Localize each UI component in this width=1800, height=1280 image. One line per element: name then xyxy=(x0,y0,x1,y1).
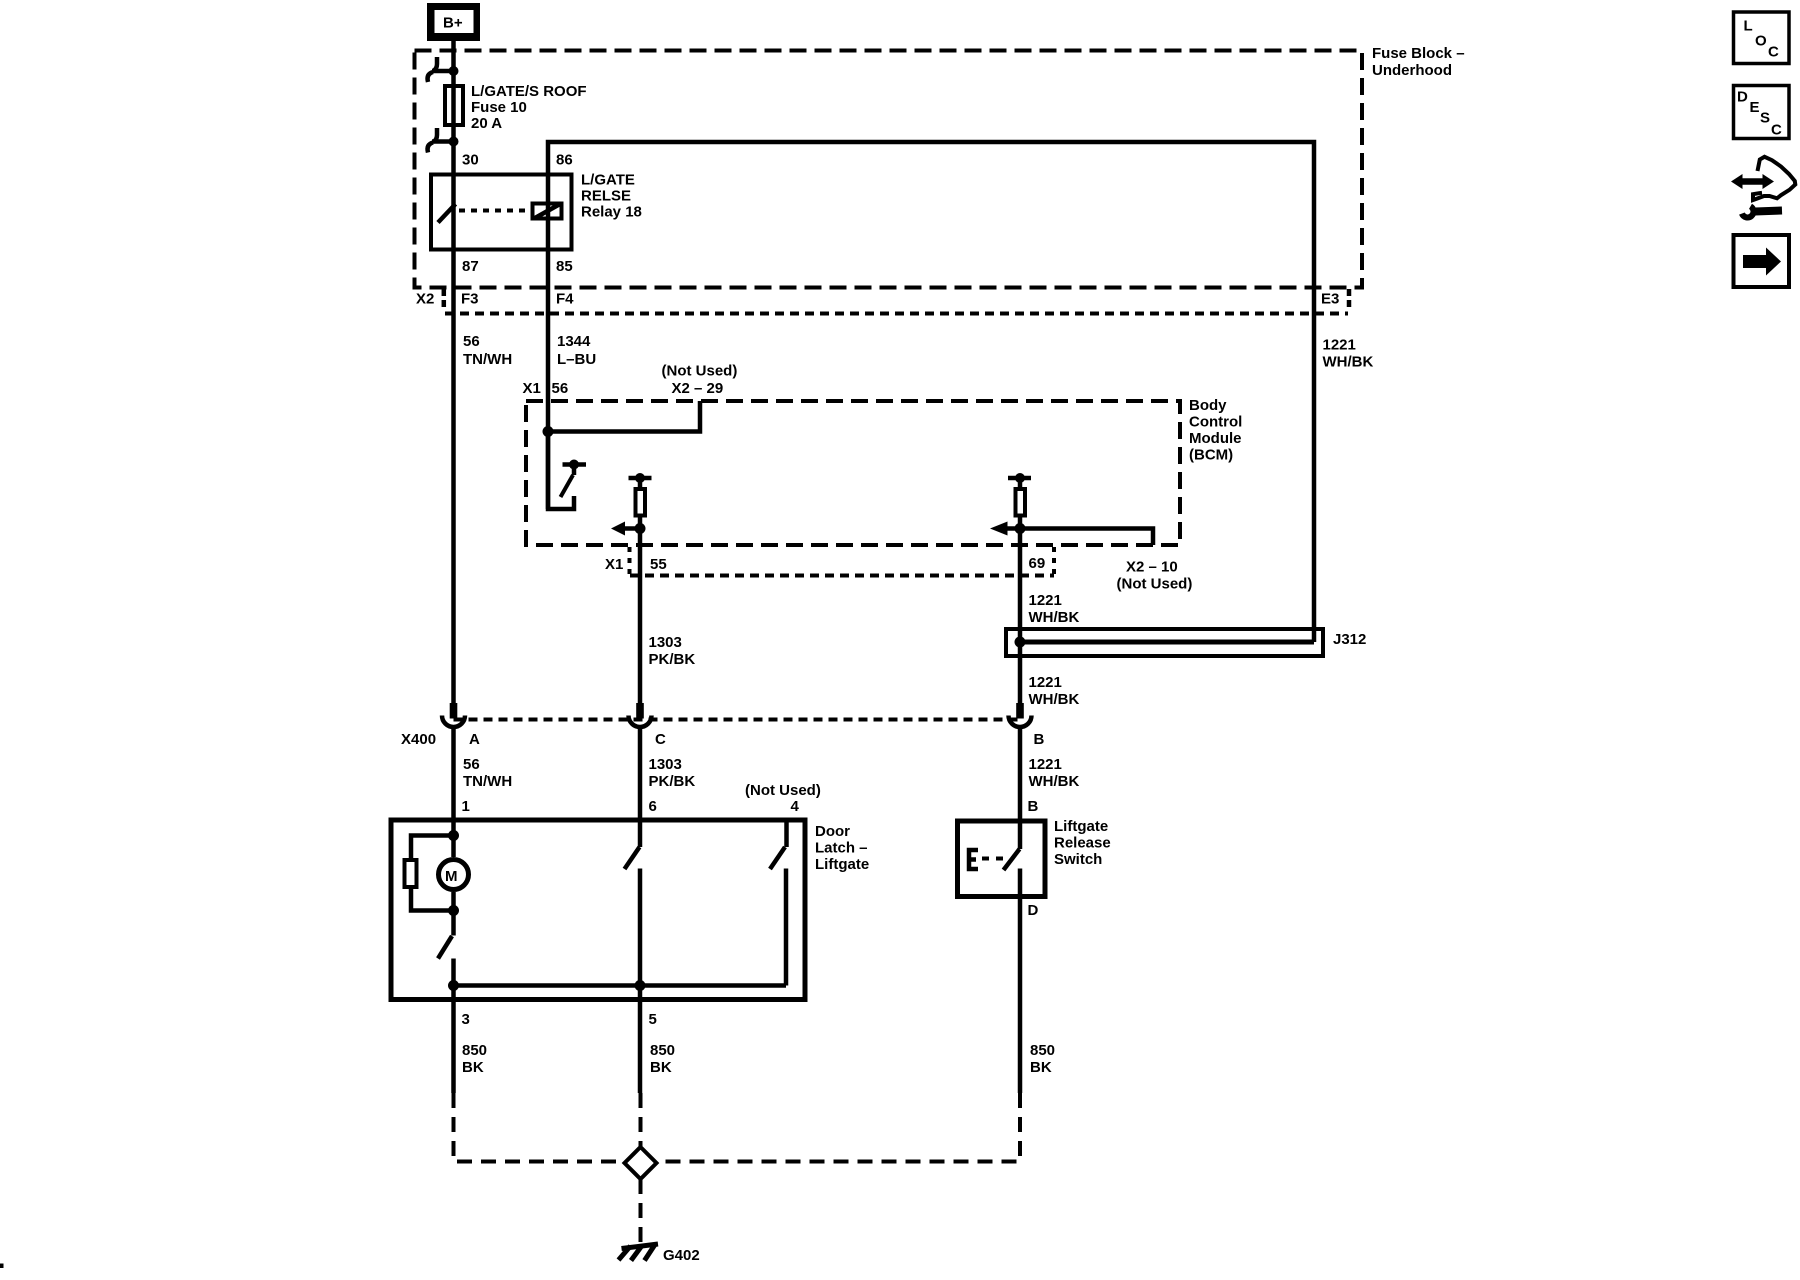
relay switch blade (30 to 87) xyxy=(438,204,456,223)
motor M xyxy=(439,836,469,890)
pin labels 1 6 4 B xyxy=(462,798,1039,815)
fuse block underhood dashed box xyxy=(415,51,1363,288)
svg-text:56: 56 xyxy=(463,756,480,773)
svg-text:X400: X400 xyxy=(401,731,436,748)
svg-text:(Not Used): (Not Used) xyxy=(662,363,738,380)
relay L/GATE RELSE Relay 18 box xyxy=(431,175,572,250)
svg-text:WH/BK: WH/BK xyxy=(1029,691,1080,708)
svg-text:WH/BK: WH/BK xyxy=(1029,609,1080,626)
svg-text:6: 6 xyxy=(649,798,657,815)
BCM dashed box xyxy=(526,401,1180,545)
wire B+ to relay pin 30 xyxy=(451,41,456,250)
label Door Latch - Liftgate xyxy=(815,823,869,873)
svg-text:X2 – 10: X2 – 10 xyxy=(1126,559,1178,576)
label 1303 PK/BK (mid) xyxy=(649,634,696,668)
connector label X1 55 xyxy=(605,547,667,575)
svg-text:TN/WH: TN/WH xyxy=(463,773,512,790)
svg-text:1221: 1221 xyxy=(1029,674,1062,691)
svg-text:Control: Control xyxy=(1189,414,1242,431)
svg-text:Liftgate: Liftgate xyxy=(1054,818,1108,835)
wire 87 down to X400-A xyxy=(451,250,456,703)
labels 850 BK x3 xyxy=(462,1042,487,1076)
page artifact dot bottom left xyxy=(0,1264,4,1269)
svg-text:(Not Used): (Not Used) xyxy=(1117,576,1193,593)
svg-text:E3: E3 xyxy=(1321,291,1339,308)
svg-text:BK: BK xyxy=(650,1059,672,1076)
svg-text:J312: J312 xyxy=(1333,631,1366,648)
svg-text:(Not Used): (Not Used) xyxy=(745,782,821,799)
svg-text:850: 850 xyxy=(650,1042,675,1059)
BCM output arrow right and X2-10 stub xyxy=(990,522,1153,546)
svg-text:20 A: 20 A xyxy=(471,115,502,132)
svg-text:56: 56 xyxy=(552,380,569,397)
svg-text:F3: F3 xyxy=(461,291,479,308)
svg-text:E: E xyxy=(1750,99,1760,116)
svg-text:G402: G402 xyxy=(663,1247,700,1264)
label 1221 WH/BK (below J312) xyxy=(1029,674,1080,708)
splice diamond xyxy=(625,1147,657,1179)
wire pin 5 down xyxy=(638,986,643,1094)
svg-text:S: S xyxy=(1760,110,1770,127)
fuse L/GATE/S ROOF Fuse 10 20A xyxy=(445,83,587,132)
label 56 TN/WH upper xyxy=(463,333,512,368)
svg-text:87: 87 xyxy=(462,258,479,275)
svg-text:WH/BK: WH/BK xyxy=(1029,773,1080,790)
svg-text:1344: 1344 xyxy=(557,333,591,350)
fuse clip top xyxy=(428,57,459,82)
svg-text:L/GATE/S ROOF: L/GATE/S ROOF xyxy=(471,83,587,100)
svg-text:Release: Release xyxy=(1054,835,1111,852)
svg-text:1221: 1221 xyxy=(1029,592,1062,609)
svg-text:A: A xyxy=(469,731,480,748)
svg-text:Fuse 10: Fuse 10 xyxy=(471,99,527,116)
svg-text:Switch: Switch xyxy=(1054,851,1102,868)
svg-text:30: 30 xyxy=(462,152,479,169)
wire relay pin 86 up and right to E3 xyxy=(548,142,1314,642)
node motor top xyxy=(448,830,459,841)
svg-text:L–BU: L–BU xyxy=(557,351,596,368)
svg-text:3: 3 xyxy=(462,1011,470,1028)
svg-text:Underhood: Underhood xyxy=(1372,62,1452,79)
relay coil xyxy=(533,204,562,219)
label 1344 L-BU xyxy=(557,333,596,368)
latch switch 1 (motor leg) xyxy=(438,892,454,986)
svg-text:1221: 1221 xyxy=(1323,337,1356,354)
svg-text:Relay 18: Relay 18 xyxy=(581,204,642,221)
svg-text:B: B xyxy=(1028,798,1039,815)
internal ground bus of door latch xyxy=(448,980,786,991)
svg-text:Liftgate: Liftgate xyxy=(815,856,869,873)
svg-text:B: B xyxy=(1034,731,1045,748)
node motor bottom xyxy=(448,905,459,916)
dashed wire diamond to ground xyxy=(639,1179,643,1246)
label Body Control Module (BCM) xyxy=(1189,397,1242,464)
svg-text:RELSE: RELSE xyxy=(581,188,631,205)
svg-text:M: M xyxy=(445,868,458,885)
svg-text:Fuse Block –: Fuse Block – xyxy=(1372,45,1465,62)
svg-text:(BCM): (BCM) xyxy=(1189,447,1233,464)
icon diagnostic arrows and wrench xyxy=(1731,157,1795,218)
label (Not Used) X2-29 xyxy=(662,363,738,398)
resistor branch in door latch xyxy=(405,836,454,911)
svg-text:69: 69 xyxy=(1029,555,1046,572)
svg-text:D: D xyxy=(1737,89,1748,106)
pin labels 3 5 xyxy=(462,1011,657,1028)
connector label 69 xyxy=(1029,547,1055,576)
svg-text:850: 850 xyxy=(462,1042,487,1059)
latch switch 2 (pin 6 leg) xyxy=(625,819,641,986)
label Liftgate Release Switch xyxy=(1054,818,1111,868)
label 1221 WH/BK (switch) xyxy=(1029,756,1080,790)
svg-text:BK: BK xyxy=(1030,1059,1052,1076)
wire X400-C to door latch pin 6 xyxy=(638,729,643,819)
svg-text:F4: F4 xyxy=(556,291,574,308)
manual actuator E symbol xyxy=(969,850,1005,869)
BCM resistor right xyxy=(1008,473,1031,529)
svg-text:5: 5 xyxy=(649,1011,657,1028)
svg-text:PK/BK: PK/BK xyxy=(649,773,696,790)
connector label X1 56 xyxy=(523,380,569,397)
svg-text:4: 4 xyxy=(791,798,800,815)
wire X1-55 down to X400-C xyxy=(638,529,643,704)
wire pin 3 down xyxy=(451,986,456,1094)
svg-text:C: C xyxy=(1768,44,1779,61)
wire relay coil 86-85 vertical xyxy=(546,173,551,251)
icon DESC box xyxy=(1734,86,1790,139)
svg-text:L/GATE: L/GATE xyxy=(581,172,635,189)
svg-text:D: D xyxy=(1028,902,1039,919)
label 1221 WH/BK (above J312) xyxy=(1029,592,1080,626)
svg-text:X2: X2 xyxy=(416,291,434,308)
svg-text:1: 1 xyxy=(462,798,470,815)
svg-text:X2 – 29: X2 – 29 xyxy=(672,380,724,397)
svg-text:C: C xyxy=(655,731,666,748)
svg-text:1303: 1303 xyxy=(649,756,682,773)
connector X400 row xyxy=(401,703,1045,748)
svg-text:55: 55 xyxy=(650,556,667,573)
label 1303 PK/BK upper xyxy=(649,756,696,790)
icon LOC box xyxy=(1734,12,1790,64)
connector bridge dotted xyxy=(630,574,1054,578)
svg-text:Door: Door xyxy=(815,823,850,840)
label Fuse Block - Underhood xyxy=(1372,45,1465,79)
svg-text:85: 85 xyxy=(556,258,573,275)
door latch liftgate box xyxy=(391,820,805,1000)
svg-text:O: O xyxy=(1755,33,1767,50)
svg-text:850: 850 xyxy=(1030,1042,1055,1059)
BCM resistor left xyxy=(629,473,652,529)
ground G402 xyxy=(619,1244,700,1264)
svg-text:TN/WH: TN/WH xyxy=(463,351,512,368)
svg-text:PK/BK: PK/BK xyxy=(649,651,696,668)
wire X400-A to door latch pin 1 xyxy=(451,729,456,819)
svg-text:86: 86 xyxy=(556,152,573,169)
BCM driver switch xyxy=(548,432,586,509)
svg-text:56: 56 xyxy=(463,333,480,350)
svg-text:X1: X1 xyxy=(523,380,541,397)
release switch contact xyxy=(1004,819,1021,1094)
icon forward arrow box xyxy=(1734,235,1790,287)
svg-text:BK: BK xyxy=(462,1059,484,1076)
label X2-10 (Not Used) xyxy=(1117,559,1193,593)
svg-text:1303: 1303 xyxy=(649,634,682,651)
svg-text:1221: 1221 xyxy=(1029,756,1062,773)
liftgate release switch box xyxy=(958,821,1046,897)
relay coil link dashed xyxy=(459,209,530,213)
svg-text:L: L xyxy=(1744,18,1753,35)
splice J312 xyxy=(1006,629,1366,656)
latch switch 3 (pin 4 leg) xyxy=(770,819,787,986)
svg-text:Module: Module xyxy=(1189,430,1242,447)
svg-text:Latch –: Latch – xyxy=(815,840,868,857)
svg-text:WH/BK: WH/BK xyxy=(1323,354,1374,371)
svg-text:X1: X1 xyxy=(605,556,623,573)
wire X400-B to liftgate switch pin B xyxy=(1018,729,1023,819)
label 1221 WH/BK (E3) xyxy=(1323,337,1374,371)
wire 85 down to BCM xyxy=(546,250,551,509)
svg-text:C: C xyxy=(1771,122,1782,139)
connector row X2: F3 F4 E3 xyxy=(416,289,1349,314)
ground distribution dashed wires xyxy=(454,1093,1021,1162)
svg-text:B+: B+ xyxy=(443,15,463,32)
node branch to X2-29 stub xyxy=(543,401,701,437)
fuse clip bottom xyxy=(428,128,459,153)
wire 69 down to J312 xyxy=(1018,529,1023,704)
svg-text:Body: Body xyxy=(1189,397,1227,414)
wire pin 1 stub xyxy=(451,819,456,836)
label 56 TN/WH lower xyxy=(463,756,512,790)
BCM output arrow left xyxy=(611,522,646,536)
B+ battery feed box xyxy=(427,3,480,41)
